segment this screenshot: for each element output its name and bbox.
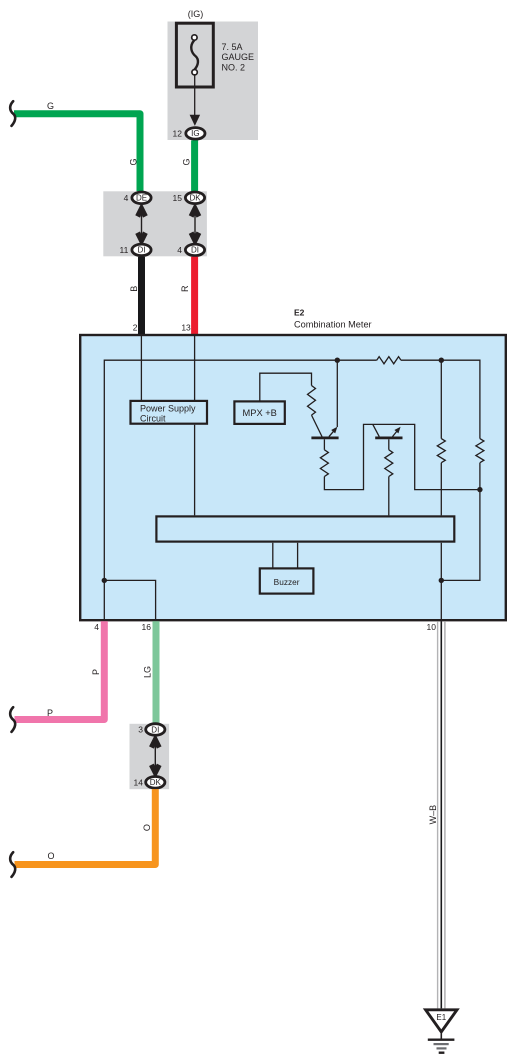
svg-text:G: G	[128, 158, 138, 165]
wire pin13 through power supply to bus bar	[194, 336, 196, 515]
svg-text:DI: DI	[191, 246, 199, 255]
wire MPX+B to R1	[260, 373, 312, 401]
resistor (top rail)	[377, 357, 401, 364]
resistor R1 (Q1 collector)	[308, 386, 316, 416]
junction block shading (IG fuse holder)	[168, 22, 259, 141]
ground E1	[426, 1010, 457, 1032]
pin 4 connector DI	[177, 244, 204, 256]
svg-text:P: P	[47, 708, 53, 718]
junction arrow DK-DI	[191, 209, 199, 241]
wire B (black)	[138, 257, 145, 336]
resistor R2 (Q1 base)	[320, 450, 328, 477]
svg-text:E2: E2	[294, 308, 305, 318]
junction arrow DI-DK lower	[151, 740, 159, 773]
svg-text:Buzzer: Buzzer	[274, 577, 300, 587]
wire R5 bottom return	[441, 490, 480, 581]
transistor Q1	[311, 427, 338, 438]
wire G (IG to DK)	[191, 140, 198, 191]
svg-text:W–B: W–B	[428, 805, 438, 825]
svg-text:R: R	[180, 285, 190, 292]
svg-text:12: 12	[173, 128, 183, 138]
wire R (red)	[191, 257, 198, 336]
svg-text:DI: DI	[151, 725, 159, 734]
wire LG (light green)	[153, 621, 160, 723]
pin 11 connector DI	[119, 244, 151, 256]
svg-text:16: 16	[142, 622, 152, 632]
node junction dots	[335, 358, 340, 363]
svg-text:(IG): (IG)	[188, 9, 204, 19]
svg-text:P: P	[91, 669, 101, 675]
MPX +B box U2	[234, 401, 284, 424]
wire W-B (shielded white-black)	[438, 621, 445, 1008]
svg-text:DE: DE	[136, 194, 147, 203]
pin 14 connector DK	[134, 777, 165, 789]
pin 3 connector DI	[138, 724, 165, 736]
wire Q1 emitter to top rail	[336, 360, 338, 427]
svg-text:4: 4	[177, 245, 182, 255]
svg-text:LG: LG	[143, 666, 153, 678]
svg-text:2: 2	[133, 323, 138, 333]
svg-text:DK: DK	[150, 778, 162, 787]
page continuation squiggle (O wire)	[10, 852, 15, 877]
svg-text:4: 4	[94, 622, 99, 632]
svg-text:IG: IG	[191, 129, 199, 138]
wire Q1 base	[323, 439, 325, 450]
svg-text:O: O	[47, 851, 54, 861]
wire O (orange)	[15, 789, 156, 864]
resistor R4	[437, 439, 445, 463]
pin 4 connector DE	[124, 192, 152, 204]
svg-text:11: 11	[119, 245, 128, 255]
svg-text:G: G	[182, 158, 192, 165]
svg-text:E1: E1	[436, 1013, 446, 1022]
wire fuse to connector IG with arrow	[190, 75, 201, 126]
svg-text:4: 4	[124, 193, 129, 203]
buzzer box	[260, 568, 314, 593]
E2 combination meter box	[80, 335, 506, 620]
svg-text:NO. 2: NO. 2	[222, 63, 246, 73]
wire G (left, from page link)	[14, 114, 140, 191]
svg-text:13: 13	[181, 323, 191, 333]
wire pin2 to power supply circuit	[140, 336, 142, 400]
wire pin4 branch	[104, 580, 155, 620]
pin 12 connector IG	[173, 128, 205, 140]
page continuation squiggle (top left)	[10, 101, 15, 126]
svg-text:GAUGE: GAUGE	[222, 52, 255, 62]
wire P (pink)	[15, 621, 105, 719]
wire R4 branch	[440, 360, 442, 620]
svg-text:3: 3	[138, 725, 143, 735]
svg-text:Circuit: Circuit	[140, 413, 166, 423]
junction arrow DE-DI	[138, 209, 146, 241]
svg-text:7. 5A: 7. 5A	[222, 42, 243, 52]
pin 15 connector DK	[173, 192, 205, 204]
fuse F1 7.5A GAUGE NO.2	[176, 23, 213, 87]
ground symbol	[428, 1033, 455, 1053]
svg-text:B: B	[129, 286, 139, 292]
connector block shading (DI - DK lower)	[130, 724, 170, 789]
resistor R3 (Q2 base)	[385, 450, 393, 477]
power supply circuit box U1	[131, 401, 208, 424]
svg-text:MPX +B: MPX +B	[243, 408, 277, 418]
resistor R5	[476, 439, 484, 463]
wires bus bar to buzzer	[273, 543, 298, 568]
wire R2 to Q2 and emitter return	[324, 424, 480, 489]
internal bus wire (top rail and left branch)	[104, 360, 480, 580]
svg-text:DI: DI	[138, 246, 146, 255]
wire Q2 base	[388, 439, 390, 450]
wire R1 to Q1 collector	[312, 415, 323, 437]
wire R3 to bus bar	[388, 477, 390, 516]
connector block shading (DE/DK - DI)	[103, 191, 207, 256]
svg-text:10: 10	[427, 622, 437, 632]
svg-text:O: O	[142, 824, 152, 831]
bus bar connector strip	[156, 516, 454, 541]
transistor Q2	[373, 424, 403, 438]
svg-text:Combination Meter: Combination Meter	[294, 320, 372, 330]
svg-text:Power Supply: Power Supply	[140, 404, 196, 414]
svg-text:15: 15	[173, 193, 183, 203]
svg-text:14: 14	[134, 777, 144, 787]
svg-text:DK: DK	[189, 194, 201, 203]
page continuation squiggle (P wire)	[10, 707, 15, 732]
svg-text:G: G	[47, 101, 54, 111]
